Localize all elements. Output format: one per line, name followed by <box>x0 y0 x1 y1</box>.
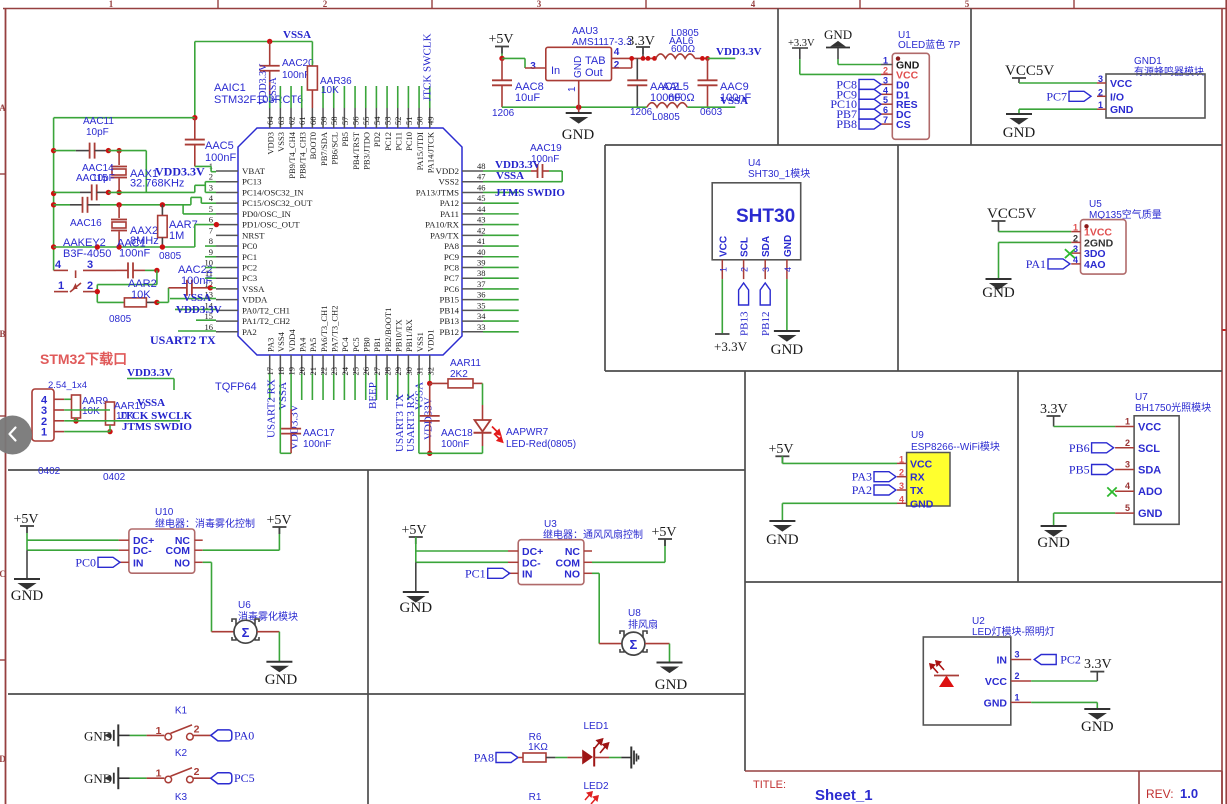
svg-text:PD1/OSC_OUT: PD1/OSC_OUT <box>242 220 300 230</box>
svg-text:PC1: PC1 <box>465 566 486 580</box>
title block <box>745 771 1222 804</box>
svg-text:REV:: REV: <box>1146 787 1174 801</box>
svg-text:61: 61 <box>297 117 307 126</box>
svg-text:8: 8 <box>209 236 213 246</box>
svg-text:GND: GND <box>1081 719 1114 735</box>
svg-text:+5V: +5V <box>13 512 38 527</box>
mcu right pins 48..33 <box>416 161 519 337</box>
svg-text:BOOT0: BOOT0 <box>308 132 318 159</box>
svg-text:PB4/TRST: PB4/TRST <box>351 131 361 170</box>
svg-text:PB12: PB12 <box>439 327 459 337</box>
svg-text:PC5: PC5 <box>351 337 361 352</box>
svg-text:4: 4 <box>883 85 888 95</box>
svg-text:PA2: PA2 <box>852 483 872 497</box>
wire left rail <box>53 118 55 271</box>
capacitor AAC22 100nF <box>169 287 187 289</box>
led AAPWR7 LED-Red(0805) <box>482 383 484 405</box>
ground <box>657 663 683 673</box>
wire row3 <box>108 150 146 152</box>
svg-text:PA14/JTCK: PA14/JTCK <box>426 131 436 173</box>
svg-text:PB11/RX: PB11/RX <box>404 319 414 352</box>
capacitor AAC11 10pF <box>54 150 76 152</box>
svg-text:2: 2 <box>899 468 904 478</box>
svg-text:4AO: 4AO <box>1084 259 1106 271</box>
svg-text:VCC: VCC <box>985 676 1008 688</box>
power +5V <box>495 47 509 54</box>
svg-text:PD2: PD2 <box>372 132 382 147</box>
svg-text:AAC18: AAC18 <box>441 428 473 439</box>
ground <box>986 279 1012 289</box>
svg-text:9: 9 <box>209 247 213 257</box>
svg-text:JTMS SWDIO: JTMS SWDIO <box>122 421 192 433</box>
svg-text:58: 58 <box>329 117 339 126</box>
svg-text:DC-: DC- <box>133 545 152 557</box>
power +3.3V <box>715 333 730 335</box>
svg-text:100nF: 100nF <box>205 152 236 164</box>
capacitor AAC2/AAL5 <box>636 58 638 80</box>
svg-text:PA0/T2_CH1: PA0/T2_CH1 <box>242 305 290 315</box>
mcu bottom pins 17..32 <box>265 306 435 400</box>
port flag PC0 <box>98 557 120 567</box>
svg-text:VDD3.3V: VDD3.3V <box>289 404 301 450</box>
svg-text:VDD2: VDD2 <box>436 166 459 176</box>
wire AAC22 branch <box>157 301 169 303</box>
svg-text:1206: 1206 <box>630 107 653 118</box>
svg-text:4: 4 <box>614 47 620 58</box>
svg-text:2: 2 <box>209 172 213 182</box>
svg-text:2K2: 2K2 <box>450 369 468 380</box>
svg-text:PC9: PC9 <box>444 252 460 262</box>
svg-text:PA3: PA3 <box>852 470 872 484</box>
svg-text:AAC11: AAC11 <box>83 116 114 127</box>
svg-text:+5V: +5V <box>266 513 291 528</box>
wire vcc <box>1054 426 1116 428</box>
wire gnd <box>999 241 1072 243</box>
svg-text:VCC: VCC <box>718 236 729 257</box>
svg-text:PA8: PA8 <box>474 751 494 765</box>
svg-text:1206: 1206 <box>492 108 515 119</box>
port flag PB5 <box>1092 465 1114 475</box>
port flag PC1 <box>488 568 510 578</box>
svg-text:3: 3 <box>761 267 771 272</box>
resistor AAR36 10K <box>311 42 313 67</box>
svg-text:U4: U4 <box>748 158 761 169</box>
svg-text:3.3V: 3.3V <box>627 34 655 49</box>
svg-text:排风扇: 排风扇 <box>628 618 658 631</box>
inductor AAL6 600R <box>656 54 695 59</box>
svg-text:38: 38 <box>477 268 486 278</box>
ground <box>769 521 795 531</box>
svg-text:PA0: PA0 <box>234 728 254 742</box>
svg-text:PA15/JTDI: PA15/JTDI <box>415 132 425 171</box>
capacitor AAC17 100nF <box>290 409 292 429</box>
svg-text:7: 7 <box>883 115 888 125</box>
svg-text:5: 5 <box>209 204 213 214</box>
svg-text:GND: GND <box>783 235 794 257</box>
power +3.3V out <box>636 47 650 54</box>
svg-text:PC1: PC1 <box>242 252 257 262</box>
wire motor to gnd <box>645 643 670 645</box>
svg-text:35: 35 <box>477 300 486 310</box>
wire row247 <box>54 246 195 248</box>
svg-text:PC0: PC0 <box>242 241 258 251</box>
svg-text:1: 1 <box>156 725 162 737</box>
svg-text:VCC5V: VCC5V <box>987 206 1036 222</box>
ground <box>266 662 292 672</box>
svg-text:60: 60 <box>308 117 318 126</box>
svg-text:37: 37 <box>477 279 486 289</box>
svg-text:PB1: PB1 <box>372 337 382 352</box>
svg-text:57: 57 <box>340 117 350 126</box>
svg-text:TAB: TAB <box>585 55 606 67</box>
wire pin16 <box>178 330 216 332</box>
svg-text:PC12: PC12 <box>383 132 393 151</box>
regulator pin1 to gnd <box>578 81 580 108</box>
svg-text:VDDA: VDDA <box>242 295 268 305</box>
capacitor AAC8 10uF <box>501 58 503 80</box>
svg-text:NO: NO <box>174 557 190 569</box>
svg-text:55: 55 <box>361 117 371 126</box>
ground <box>14 579 40 589</box>
nav button overlay <box>0 416 32 455</box>
svg-text:3: 3 <box>899 481 904 491</box>
svg-text:PC10: PC10 <box>404 132 414 151</box>
svg-text:40: 40 <box>477 247 486 257</box>
svg-text:PB5: PB5 <box>1069 463 1090 477</box>
svg-text:SHT30_1模块: SHT30_1模块 <box>748 168 810 180</box>
svg-text:PC0: PC0 <box>75 555 96 569</box>
svg-text:继电器：消毒雾化控制: 继电器：消毒雾化控制 <box>155 517 255 530</box>
svg-text:PC13: PC13 <box>242 177 262 187</box>
ground <box>566 113 592 123</box>
svg-text:VSSA: VSSA <box>268 77 279 103</box>
svg-text:PB15: PB15 <box>439 295 459 305</box>
svg-text:46: 46 <box>477 182 486 192</box>
svg-text:GND: GND <box>400 600 433 616</box>
wire rows <box>64 409 110 411</box>
svg-text:1: 1 <box>58 280 64 292</box>
svg-text:U7: U7 <box>1135 392 1148 403</box>
svg-text:CS: CS <box>896 119 911 131</box>
svg-text:L0805: L0805 <box>652 112 680 123</box>
svg-text:GND: GND <box>1138 508 1163 520</box>
svg-text:VDD1: VDD1 <box>426 329 436 352</box>
svg-text:10K: 10K <box>82 406 100 417</box>
wire motor to gnd <box>257 631 279 633</box>
svg-text:GND: GND <box>1037 535 1070 551</box>
svg-text:PB7/SDA: PB7/SDA <box>319 131 329 166</box>
svg-text:VCC: VCC <box>1110 78 1133 90</box>
svg-text:4: 4 <box>1125 481 1130 491</box>
inductor AAL5 rail <box>647 103 687 108</box>
svg-text:2: 2 <box>1073 233 1078 243</box>
no-connect X pin3 <box>1065 249 1075 258</box>
svg-text:PC7: PC7 <box>1046 89 1067 103</box>
svg-text:GND: GND <box>1110 104 1134 116</box>
port flag PC2 <box>1034 655 1056 665</box>
wire pin13 VSSA <box>170 298 216 300</box>
svg-text:3: 3 <box>1098 74 1103 84</box>
svg-text:PB8: PB8 <box>836 117 857 131</box>
svg-text:2: 2 <box>1098 87 1103 97</box>
svg-text:54: 54 <box>372 116 382 125</box>
svg-text:VDD3.3V: VDD3.3V <box>716 46 762 58</box>
svg-text:USART2 RX: USART2 RX <box>266 379 278 438</box>
svg-text:K1: K1 <box>175 705 188 716</box>
svg-text:GND1: GND1 <box>1134 56 1162 67</box>
svg-text:GND: GND <box>984 697 1008 709</box>
svg-text:PA13/JTMS: PA13/JTMS <box>416 187 459 197</box>
capacitor AAC9 100nF <box>707 58 709 80</box>
svg-text:VCC: VCC <box>1138 422 1161 434</box>
no-connect X pin4 <box>1107 487 1116 496</box>
wire pin18 gnd loop <box>279 374 281 454</box>
svg-text:10pF: 10pF <box>92 173 115 184</box>
svg-text:0402: 0402 <box>38 466 61 477</box>
svg-text:1: 1 <box>567 86 578 92</box>
svg-text:PC5: PC5 <box>234 771 255 785</box>
svg-text:PC2: PC2 <box>1060 653 1081 667</box>
wire row204 staircase to pins 4/5 <box>100 204 191 206</box>
svg-text:U6: U6 <box>238 600 251 611</box>
svg-text:DC+: DC+ <box>522 546 543 558</box>
wire gnd <box>1054 512 1116 514</box>
svg-text:51: 51 <box>404 117 414 126</box>
wire vcc <box>1019 82 1097 84</box>
svg-text:U9: U9 <box>911 430 924 441</box>
svg-text:JTMS SWDIO: JTMS SWDIO <box>495 187 565 199</box>
svg-text:LED-Red(0805): LED-Red(0805) <box>506 439 576 450</box>
wire VDD3.3V out <box>708 57 736 59</box>
svg-text:VSS2: VSS2 <box>438 177 459 187</box>
resistor AAR2 10K <box>97 301 124 303</box>
wire AAR11 loop bottom <box>419 452 483 454</box>
svg-text:2: 2 <box>194 723 200 735</box>
svg-text:COM: COM <box>166 545 191 557</box>
svg-text:PB2/BOOT1: PB2/BOOT1 <box>383 308 393 352</box>
wire TAB/Out <box>612 57 656 59</box>
svg-text:ADO: ADO <box>1138 486 1163 498</box>
svg-text:1: 1 <box>109 0 114 9</box>
svg-text:PA6/T3_CH1: PA6/T3_CH1 <box>319 306 329 352</box>
svg-text:+5V: +5V <box>651 525 676 540</box>
svg-text:4: 4 <box>751 0 756 9</box>
svg-text:VCC: VCC <box>910 458 933 470</box>
svg-text:AAC17: AAC17 <box>303 428 335 439</box>
svg-text:4: 4 <box>899 494 904 504</box>
capacitor AAC20 100nF <box>269 42 271 66</box>
capacitor AAC18 100nF <box>429 383 431 415</box>
svg-text:OLED蓝色 7P: OLED蓝色 7P <box>898 38 961 51</box>
svg-text:1: 1 <box>883 56 888 66</box>
svg-text:59: 59 <box>319 117 329 126</box>
svg-text:39: 39 <box>477 257 486 267</box>
svg-text:47: 47 <box>477 172 486 182</box>
svg-text:+3.3V: +3.3V <box>714 339 748 354</box>
wire 3.3V to pin2 <box>799 59 801 74</box>
svg-text:ESP8266--WiFi模块: ESP8266--WiFi模块 <box>911 441 1000 453</box>
svg-text:SCL: SCL <box>1138 443 1160 455</box>
svg-text:100nF: 100nF <box>181 275 212 287</box>
crystal AAX1 32.768KHz <box>118 151 120 165</box>
svg-text:VSSA: VSSA <box>183 292 211 304</box>
svg-text:Out: Out <box>585 67 603 79</box>
svg-text:1.0: 1.0 <box>1180 786 1198 801</box>
svg-text:PA1/T2_CH2: PA1/T2_CH2 <box>242 316 290 326</box>
svg-text:3: 3 <box>537 0 542 9</box>
svg-text:1: 1 <box>718 267 728 272</box>
wire pin19 <box>290 374 292 409</box>
svg-text:AAC5: AAC5 <box>205 140 234 152</box>
svg-text:4: 4 <box>783 267 793 272</box>
svg-text:10pF: 10pF <box>86 127 109 138</box>
wire key link <box>156 270 158 284</box>
svg-text:U10: U10 <box>155 507 174 518</box>
svg-text:1: 1 <box>156 768 162 780</box>
svg-text:1: 1 <box>1014 692 1019 702</box>
svg-text:45: 45 <box>477 193 486 203</box>
svg-text:PB5: PB5 <box>340 132 350 147</box>
resistor AAR10 10K <box>106 402 115 425</box>
svg-text:50: 50 <box>415 117 425 126</box>
svg-text:32.768KHz: 32.768KHz <box>130 178 184 190</box>
svg-text:1: 1 <box>1125 417 1130 427</box>
svg-text:TQFP64: TQFP64 <box>215 381 257 393</box>
svg-text:VSS4: VSS4 <box>276 331 286 352</box>
svg-text:AAC16: AAC16 <box>70 218 102 229</box>
svg-text:VSS3: VSS3 <box>276 132 286 152</box>
led symbol inside U2 <box>939 676 954 688</box>
svg-text:NC: NC <box>565 546 581 558</box>
wire dc+ dc- <box>415 537 417 562</box>
svg-text:PC7: PC7 <box>444 273 460 283</box>
svg-text:K2: K2 <box>175 748 188 759</box>
svg-text:1: 1 <box>899 454 904 464</box>
svg-text:2: 2 <box>740 267 750 272</box>
svg-text:U2: U2 <box>972 616 985 627</box>
svg-text:+5V: +5V <box>401 523 426 538</box>
svg-text:100nF: 100nF <box>303 439 331 450</box>
svg-text:GND: GND <box>1003 125 1036 141</box>
svg-text:有源蜂鸣器模块: 有源蜂鸣器模块 <box>1134 65 1204 78</box>
svg-text:43: 43 <box>477 215 486 225</box>
svg-text:3: 3 <box>87 259 93 271</box>
svg-text:GND: GND <box>982 285 1015 301</box>
wire pin31 <box>418 374 420 454</box>
port flag PA2 <box>874 485 896 495</box>
svg-text:PA3: PA3 <box>266 338 276 352</box>
svg-text:SDA: SDA <box>1138 465 1161 477</box>
svg-text:3: 3 <box>209 182 213 192</box>
svg-text:63: 63 <box>276 117 286 126</box>
svg-text:I/O: I/O <box>1110 91 1124 103</box>
svg-text:1: 1 <box>41 427 47 439</box>
svg-text:U3: U3 <box>544 519 557 530</box>
svg-text:AAU3: AAU3 <box>572 26 599 37</box>
svg-text:GND: GND <box>11 588 44 604</box>
ground <box>1006 114 1032 124</box>
svg-text:4: 4 <box>55 259 62 271</box>
svg-text:PA11: PA11 <box>440 209 459 219</box>
svg-text:PA5: PA5 <box>308 338 318 352</box>
svg-text:BEEP: BEEP <box>367 382 379 409</box>
svg-text:VSS1: VSS1 <box>415 332 425 352</box>
svg-text:34: 34 <box>477 311 486 321</box>
svg-text:VBAT: VBAT <box>242 166 266 176</box>
mcu U AAIC1 STM32F103RCT6 <box>214 82 462 355</box>
svg-text:In: In <box>551 65 560 77</box>
svg-text:Σ: Σ <box>242 625 250 640</box>
mcu top pins 64..49 <box>265 86 435 179</box>
svg-text:LED2: LED2 <box>583 781 608 792</box>
capacitor AAC14 10pF <box>54 191 80 193</box>
svg-text:5: 5 <box>883 95 888 105</box>
wire pin14 VDD3.3V <box>175 308 216 310</box>
svg-text:0805: 0805 <box>109 314 132 325</box>
svg-text:BH1750光照模块: BH1750光照模块 <box>1135 401 1211 414</box>
svg-text:Σ: Σ <box>629 637 637 652</box>
svg-text:10K: 10K <box>321 85 339 96</box>
svg-text:PB3/JTDO: PB3/JTDO <box>362 132 372 170</box>
port flag PC7 <box>1069 91 1091 101</box>
power +5V <box>775 456 789 463</box>
svg-text:1KΩ: 1KΩ <box>528 742 548 753</box>
svg-text:PB13: PB13 <box>439 316 459 326</box>
wire row194 staircase to pins 2/3 <box>108 191 194 193</box>
svg-text:STM32下载口: STM32下载口 <box>40 351 127 367</box>
svg-text:PB0: PB0 <box>362 337 372 352</box>
svg-text:3.3V: 3.3V <box>1040 402 1068 417</box>
svg-text:+5V: +5V <box>768 442 793 457</box>
svg-text:PB14: PB14 <box>439 305 459 315</box>
svg-text:PC8: PC8 <box>444 262 460 272</box>
svg-text:7: 7 <box>209 225 213 235</box>
svg-text:5: 5 <box>965 0 970 9</box>
power +5V left <box>409 537 423 544</box>
port flag PA1 <box>1048 259 1070 269</box>
svg-text:0402: 0402 <box>103 472 126 483</box>
capacitor AAC19 100nF (pin48-47) <box>483 170 531 172</box>
svg-text:SCL: SCL <box>740 237 751 257</box>
svg-text:1M: 1M <box>169 230 184 242</box>
svg-text:PA2: PA2 <box>242 327 257 337</box>
wire NO to motor <box>592 572 599 574</box>
svg-text:PB10/TX: PB10/TX <box>394 319 404 352</box>
svg-text:1: 1 <box>1073 223 1078 233</box>
wire pin4 to gnd <box>786 279 788 331</box>
port flag PB13 <box>739 283 749 305</box>
wire pin1 VDD3.3V <box>195 165 211 167</box>
port flag PB6 <box>1092 443 1114 453</box>
svg-text:A: A <box>0 103 6 113</box>
svg-text:33: 33 <box>477 322 486 332</box>
wire gnd <box>1031 701 1097 703</box>
svg-text:52: 52 <box>393 117 403 126</box>
svg-text:SHT30: SHT30 <box>736 206 795 227</box>
wire pin32 <box>429 374 431 384</box>
svg-text:AAPWR7: AAPWR7 <box>506 427 549 438</box>
svg-text:2: 2 <box>194 766 200 778</box>
port flags PC8 PC9 PC10 PB7 PB8 <box>859 79 881 89</box>
wire pins 8-11 <box>205 245 216 247</box>
svg-text:PA10/RX: PA10/RX <box>425 220 460 230</box>
svg-text:10K: 10K <box>131 289 151 301</box>
svg-text:PC14/OSC32_IN: PC14/OSC32_IN <box>242 187 304 197</box>
svg-text:2: 2 <box>1125 438 1130 448</box>
svg-text:AAC19: AAC19 <box>530 143 562 154</box>
svg-text:53: 53 <box>383 117 393 126</box>
svg-text:IN: IN <box>133 557 144 569</box>
